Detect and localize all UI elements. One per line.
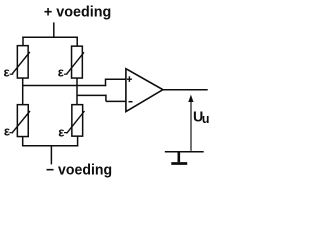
svg-text:u: u: [202, 112, 210, 126]
ground top line: [165, 151, 204, 153]
wire R3 bottom drop: [22, 137, 24, 147]
wire top stub: [53, 22, 55, 37]
strain gauge R1 (upper-left): [10, 46, 30, 78]
wire node A rail: [22, 85, 106, 87]
ground thick stub: [178, 152, 181, 162]
wire bottom rail: [22, 145, 78, 147]
wire node B step down: [105, 95, 107, 102]
wire bottom stub: [50, 146, 52, 165]
svg-text:ε: ε: [58, 124, 65, 139]
wire right column R2 bottom through node B to R4: [76, 78, 78, 104]
wire left column node A to R3: [22, 86, 24, 105]
op-amp plus input sign: [127, 76, 132, 82]
svg-text:+ voeding: + voeding: [44, 5, 111, 21]
wire top-right corner drop: [76, 37, 78, 47]
ground thick bar: [171, 162, 187, 165]
strain gauge R2 (upper-right): [64, 46, 84, 78]
op-amp minus input sign: [129, 101, 133, 103]
svg-text:ε: ε: [4, 65, 11, 80]
wire top-left corner drop: [22, 37, 24, 46]
arrow Uu shaft: [190, 101, 192, 151]
wire R4 bottom drop: [77, 136, 79, 146]
wire node A step up: [105, 79, 107, 87]
op-amp U1 triangle: [126, 69, 163, 112]
wire node B to op-amp minus input: [106, 100, 127, 102]
wire node A to op-amp plus input: [106, 78, 127, 80]
wire node B rail: [77, 94, 107, 96]
wire R1 bottom to node A: [22, 78, 24, 86]
strain gauge R3 (lower-left): [9, 105, 30, 137]
arrow Uu head: [188, 95, 193, 102]
wire op-amp output: [163, 89, 208, 91]
svg-text:ε: ε: [58, 65, 65, 80]
strain gauge R4 (lower-right): [64, 105, 85, 136]
wire top rail: [22, 36, 78, 38]
svg-text:− voeding: − voeding: [46, 163, 112, 179]
svg-text:ε: ε: [4, 123, 11, 138]
